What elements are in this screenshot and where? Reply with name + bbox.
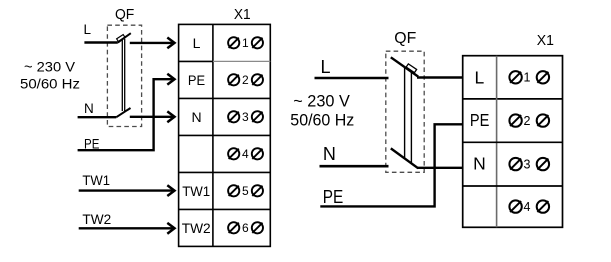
svg-text:4: 4 [242,147,249,161]
svg-text:X1: X1 [234,6,251,23]
svg-text:TW1: TW1 [182,183,210,199]
svg-text:2: 2 [524,114,531,128]
svg-text:TW1: TW1 [82,173,110,188]
svg-text:3: 3 [524,157,531,171]
svg-text:QF: QF [115,7,134,23]
svg-text:QF: QF [394,30,416,47]
svg-text:1: 1 [524,71,531,85]
svg-text:50/60 Hz: 50/60 Hz [290,111,354,129]
svg-text:50/60 Hz: 50/60 Hz [20,76,80,92]
svg-text:~ 230 V: ~ 230 V [293,92,350,110]
svg-text:PE: PE [323,187,344,207]
svg-text:N: N [473,154,486,174]
svg-text:L: L [193,35,201,51]
svg-text:1: 1 [242,36,249,50]
svg-text:N: N [84,101,94,116]
svg-text:N: N [323,144,336,164]
svg-text:TW2: TW2 [82,212,111,227]
svg-text:3: 3 [242,110,249,124]
svg-text:~ 230 V: ~ 230 V [24,58,76,74]
svg-text:2: 2 [242,73,249,87]
svg-text:PE: PE [188,72,205,88]
svg-text:6: 6 [242,221,249,235]
svg-text:PE: PE [470,110,490,130]
svg-text:TW2: TW2 [182,220,211,236]
svg-text:4: 4 [524,200,531,214]
svg-text:L: L [84,22,92,37]
svg-text:5: 5 [242,184,249,198]
svg-text:N: N [191,109,201,125]
svg-text:X1: X1 [537,32,554,49]
svg-text:L: L [475,67,485,87]
svg-text:L: L [321,57,331,77]
